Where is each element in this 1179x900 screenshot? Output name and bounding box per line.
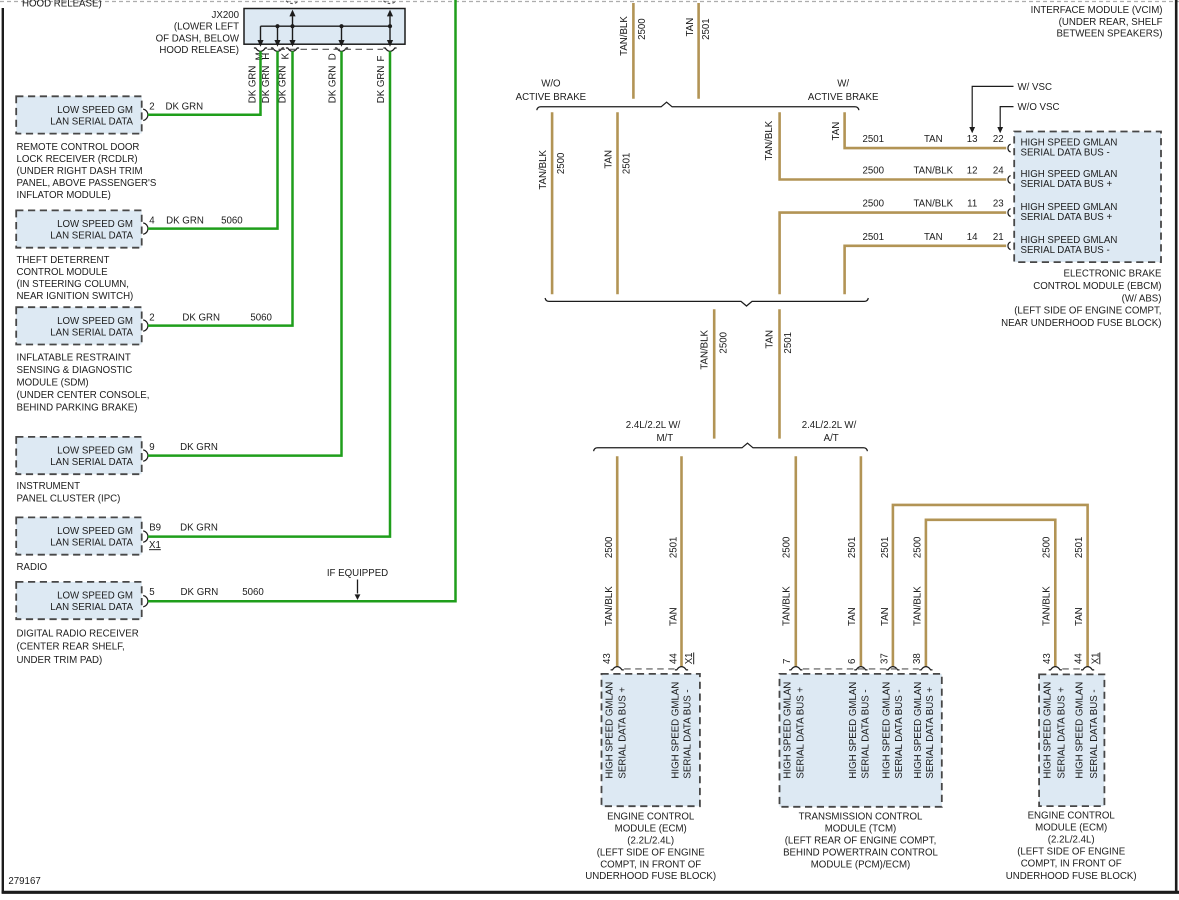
connector cup at bottom module pin 7 xyxy=(789,667,802,670)
svg-text:DK GRN: DK GRN xyxy=(376,66,387,104)
svg-text:HOOD RELEASE): HOOD RELEASE) xyxy=(22,0,102,10)
svg-text:22: 22 xyxy=(993,134,1004,145)
svg-text:HIGH SPEED GMLAN: HIGH SPEED GMLAN xyxy=(1043,682,1054,779)
svg-text:UNDER TRIM PAD): UNDER TRIM PAD) xyxy=(17,655,103,666)
svg-text:5: 5 xyxy=(149,587,154,598)
svg-text:LAN SERIAL DATA: LAN SERIAL DATA xyxy=(50,538,133,549)
svg-text:LOW SPEED GM: LOW SPEED GM xyxy=(57,316,133,327)
svg-text:9: 9 xyxy=(149,442,154,453)
svg-text:(UNDER RIGHT DASH TRIM: (UNDER RIGHT DASH TRIM xyxy=(17,166,143,177)
svg-text:TAN: TAN xyxy=(603,150,614,169)
module box: digital radio receiver (LOW SPEED GM LAN SERIAL DATA) xyxy=(16,582,142,619)
connector cup at RCDLR output xyxy=(143,109,148,120)
off-page connector arc above JX200 pin F xyxy=(384,1,397,4)
off-page connector arc above JX200 pin K xyxy=(286,1,299,4)
svg-text:2500: 2500 xyxy=(863,199,885,210)
svg-text:(LEFT SIDE OF ENGINE: (LEFT SIDE OF ENGINE xyxy=(1017,847,1126,858)
svg-text:W/ VSC: W/ VSC xyxy=(1018,82,1052,93)
connector dashed strip at ECM (2.2L/2.4L M/T) xyxy=(624,668,674,670)
svg-text:DK GRN: DK GRN xyxy=(180,442,218,453)
svg-text:BETWEEN SPEAKERS): BETWEEN SPEAKERS) xyxy=(1056,29,1162,40)
svg-text:MODULE (SDM): MODULE (SDM) xyxy=(17,378,89,389)
svg-text:COMPT, IN FRONT OF: COMPT, IN FRONT OF xyxy=(1021,859,1122,870)
svg-text:2501: 2501 xyxy=(701,18,712,40)
page right border xyxy=(1175,0,1178,893)
svg-text:DK GRN: DK GRN xyxy=(278,66,289,104)
module box: RCDLR (LOW SPEED GM LAN SERIAL DATA) xyxy=(16,96,142,133)
svg-text:14: 14 xyxy=(967,232,978,243)
JX200 arrowhead up at pin K xyxy=(289,10,295,17)
connector cup at bottom module pin 44 xyxy=(1081,667,1094,670)
svg-text:A/T: A/T xyxy=(824,433,839,444)
merge brace: branches rejoin below EBCM xyxy=(545,298,868,306)
connector cup at theft deterrent output xyxy=(143,223,148,234)
svg-text:D: D xyxy=(327,53,338,60)
JX200 arrowhead into pin D xyxy=(338,40,344,47)
leader line W/ VSC pointing at pin column 13 xyxy=(972,86,1013,127)
wire 2500 TAN/BLK crossover TCM pin 38 to ECM pin 43 xyxy=(926,520,1055,667)
svg-text:JX200: JX200 xyxy=(212,10,240,21)
svg-text:HOOD RELEASE): HOOD RELEASE) xyxy=(159,45,239,56)
svg-text:2500: 2500 xyxy=(781,536,792,558)
connector cup at IPC output xyxy=(143,450,148,461)
page top border (cropped, gray dashed) xyxy=(0,1,1179,3)
svg-text:M/T: M/T xyxy=(656,433,673,444)
svg-text:COMPT, IN FRONT OF: COMPT, IN FRONT OF xyxy=(600,859,701,870)
svg-text:HIGH SPEED GMLAN: HIGH SPEED GMLAN xyxy=(882,682,893,779)
svg-text:SERIAL DATA BUS +: SERIAL DATA BUS + xyxy=(1056,687,1067,779)
svg-text:2: 2 xyxy=(149,313,154,324)
svg-text:44: 44 xyxy=(1073,653,1084,664)
svg-text:W/O: W/O xyxy=(541,79,561,90)
svg-text:12: 12 xyxy=(967,166,978,177)
JX200 stub up from pin F (to off-page) xyxy=(389,16,391,26)
module box: transmission control module TCM xyxy=(780,674,942,807)
svg-text:2500: 2500 xyxy=(863,166,885,177)
JX200 junction dot at pin H xyxy=(275,24,279,28)
svg-text:TAN/BLK: TAN/BLK xyxy=(913,166,953,177)
svg-text:TAN/BLK: TAN/BLK xyxy=(913,586,924,626)
svg-text:TAN: TAN xyxy=(764,330,775,349)
svg-text:X1: X1 xyxy=(1090,652,1101,664)
svg-text:(2.2L/2.4L): (2.2L/2.4L) xyxy=(1048,835,1095,846)
svg-text:SERIAL DATA BUS -: SERIAL DATA BUS - xyxy=(1089,689,1100,778)
svg-text:RADIO: RADIO xyxy=(17,562,48,573)
svg-text:43: 43 xyxy=(1042,653,1053,664)
split brace: pair splits to ECM (M/T) and TCM (A/T) xyxy=(594,443,868,451)
JX200 stub down to pin K xyxy=(292,26,294,40)
svg-text:43: 43 xyxy=(602,653,613,664)
svg-text:TAN/BLK: TAN/BLK xyxy=(781,586,792,626)
svg-text:TAN/BLK: TAN/BLK xyxy=(604,586,615,626)
connector dashed strip at TCM xyxy=(803,668,919,670)
svg-text:TAN/BLK: TAN/BLK xyxy=(538,149,549,189)
svg-text:2500: 2500 xyxy=(637,18,648,40)
svg-text:PANEL, ABOVE PASSENGER'S: PANEL, ABOVE PASSENGER'S xyxy=(17,178,157,189)
arrow IF EQUIPPED pointing to digital radio wire xyxy=(357,580,359,594)
wire radio pin B9 to JX200 (DK GRN) xyxy=(148,51,390,536)
wire 2501 TAN (W/O ACTIVE BRAKE branch) xyxy=(616,112,619,294)
svg-text:TAN: TAN xyxy=(924,134,943,145)
svg-text:TAN: TAN xyxy=(685,18,696,37)
svg-text:2501: 2501 xyxy=(847,537,858,559)
svg-text:DK GRN: DK GRN xyxy=(247,66,258,104)
svg-text:LOW SPEED GM: LOW SPEED GM xyxy=(57,526,133,537)
module box: IPC (LOW SPEED GM LAN SERIAL DATA) xyxy=(16,437,142,474)
svg-text:CONTROL MODULE: CONTROL MODULE xyxy=(17,267,109,278)
svg-text:B9: B9 xyxy=(149,523,161,534)
svg-text:2501: 2501 xyxy=(863,232,885,243)
svg-text:TRANSMISSION CONTROL: TRANSMISSION CONTROL xyxy=(799,812,923,823)
svg-text:2501: 2501 xyxy=(669,537,680,559)
wire RCDLR pin 2 to JX200 (DK GRN) xyxy=(148,51,261,115)
svg-text:HIGH SPEED GMLAN: HIGH SPEED GMLAN xyxy=(1075,682,1086,779)
wire 2501 TAN crossover TCM pin 37 to ECM pin 44 xyxy=(893,505,1088,667)
connector dashed strip at ECM (2.2L/2.4L A/T) xyxy=(1062,668,1080,670)
connector cup at radio output xyxy=(143,531,148,542)
svg-text:TAN/BLK: TAN/BLK xyxy=(619,16,630,56)
svg-text:(UNDER REAR, SHELF: (UNDER REAR, SHELF xyxy=(1059,17,1163,28)
svg-text:11: 11 xyxy=(967,199,977,210)
connector cup at EBCM pin 24 xyxy=(1008,176,1011,184)
JX200 arrowhead into pin K xyxy=(289,40,295,47)
svg-text:279167: 279167 xyxy=(8,876,40,887)
svg-text:BEHIND POWERTRAIN CONTROL: BEHIND POWERTRAIN CONTROL xyxy=(783,847,938,858)
svg-text:MODULE (ECM): MODULE (ECM) xyxy=(1035,822,1107,833)
svg-text:ELECTRONIC BRAKE: ELECTRONIC BRAKE xyxy=(1064,269,1163,280)
page bottom border xyxy=(2,891,1179,894)
svg-text:2: 2 xyxy=(149,102,154,113)
svg-text:DK GRN: DK GRN xyxy=(165,102,203,113)
svg-text:DK GRN: DK GRN xyxy=(182,313,220,324)
svg-text:DK GRN: DK GRN xyxy=(180,523,218,534)
svg-text:37: 37 xyxy=(880,653,891,664)
wire 2501 TAN merged pair xyxy=(778,309,781,438)
module box: SDM (LOW SPEED GM LAN SERIAL DATA) xyxy=(16,307,142,344)
svg-text:HIGH SPEED GMLAN: HIGH SPEED GMLAN xyxy=(848,682,859,779)
svg-text:LAN SERIAL DATA: LAN SERIAL DATA xyxy=(50,327,133,338)
wire SDM pin 2 to JX200 (DK GRN) xyxy=(148,51,293,325)
svg-text:TAN: TAN xyxy=(847,607,858,626)
wire 2501 TAN from brace to EBCM pin 13 (HS GMLAN bus -) xyxy=(845,112,1007,148)
svg-text:24: 24 xyxy=(993,166,1004,177)
svg-text:REMOTE CONTROL DOOR: REMOTE CONTROL DOOR xyxy=(17,142,140,153)
JX200 stub down to pin D xyxy=(341,26,343,40)
svg-text:TAN: TAN xyxy=(831,122,842,141)
svg-text:2500: 2500 xyxy=(1042,536,1053,558)
svg-text:(LEFT SIDE OF ENGINE: (LEFT SIDE OF ENGINE xyxy=(597,847,706,858)
svg-text:2501: 2501 xyxy=(863,134,885,145)
JX200 arrowhead into pin F xyxy=(387,40,393,47)
wire 2501 TAN to TCM pin 6 xyxy=(860,456,863,666)
svg-text:HIGH SPEED GMLAN: HIGH SPEED GMLAN xyxy=(783,682,794,779)
svg-text:PANEL CLUSTER (IPC): PANEL CLUSTER (IPC) xyxy=(17,494,121,505)
svg-text:13: 13 xyxy=(967,134,978,145)
svg-text:DIGITAL RADIO RECEIVER: DIGITAL RADIO RECEIVER xyxy=(17,629,139,640)
connector cup at SDM output xyxy=(143,320,148,331)
svg-text:X1: X1 xyxy=(149,540,161,551)
svg-text:UNDERHOOD FUSE BLOCK): UNDERHOOD FUSE BLOCK) xyxy=(585,871,716,882)
svg-text:23: 23 xyxy=(993,199,1004,210)
svg-text:TAN: TAN xyxy=(1074,607,1085,626)
svg-text:INTERFACE MODULE (VCIM): INTERFACE MODULE (VCIM) xyxy=(1031,5,1163,16)
wire digital radio receiver pin 5 to JX200 (DK GRN) xyxy=(148,0,456,601)
svg-text:2501: 2501 xyxy=(783,332,794,354)
wire VCIM 2500 TAN/BLK down to brace xyxy=(632,3,635,99)
svg-text:THEFT DETERRENT: THEFT DETERRENT xyxy=(17,255,110,266)
svg-text:2.4L/2.2L W/: 2.4L/2.2L W/ xyxy=(626,420,681,431)
svg-text:NEAR UNDERHOOD FUSE BLOCK): NEAR UNDERHOOD FUSE BLOCK) xyxy=(1001,318,1161,329)
svg-text:ACTIVE BRAKE: ACTIVE BRAKE xyxy=(516,92,587,103)
svg-text:(2.2L/2.4L): (2.2L/2.4L) xyxy=(627,836,674,847)
svg-text:LAN SERIAL DATA: LAN SERIAL DATA xyxy=(50,116,133,127)
svg-text:(UNDER CENTER CONSOLE,: (UNDER CENTER CONSOLE, xyxy=(17,390,150,401)
wire 2500 TAN/BLK to ECM pin 43 xyxy=(616,456,619,666)
svg-text:DK GRN: DK GRN xyxy=(327,66,338,104)
svg-text:DK GRN: DK GRN xyxy=(166,216,204,227)
connector cup at bottom module pin 38 xyxy=(919,667,932,670)
connector cup at bottom module pin 6 xyxy=(854,667,867,670)
svg-text:2501: 2501 xyxy=(1074,537,1085,559)
wire IPC pin 9 to JX200 (DK GRN) xyxy=(148,51,342,455)
connector cup at bottom module pin 44 xyxy=(675,667,688,670)
leader line W/O VSC pointing at pin column 22 xyxy=(1000,107,1013,128)
svg-text:(CENTER REAR SHELF,: (CENTER REAR SHELF, xyxy=(17,642,125,653)
JX200 junction dot at pin K xyxy=(290,24,294,28)
svg-text:SERIAL DATA BUS -: SERIAL DATA BUS - xyxy=(683,689,694,778)
svg-text:SERIAL DATA BUS +: SERIAL DATA BUS + xyxy=(925,687,936,779)
page left border xyxy=(2,8,4,893)
JX200 arrowhead into pin M xyxy=(257,40,263,47)
svg-text:LOW SPEED GM: LOW SPEED GM xyxy=(57,105,133,116)
svg-text:LAN SERIAL DATA: LAN SERIAL DATA xyxy=(50,457,133,468)
svg-text:5060: 5060 xyxy=(221,216,243,227)
JX200 junction dot at pin D xyxy=(339,24,343,28)
svg-text:HIGH SPEED GMLAN: HIGH SPEED GMLAN xyxy=(913,682,924,779)
JX200 internal bus wire xyxy=(261,25,391,27)
svg-text:LOW SPEED GM: LOW SPEED GM xyxy=(57,446,133,457)
svg-text:(IN STEERING COLUMN,: (IN STEERING COLUMN, xyxy=(17,279,130,290)
svg-text:MODULE (PCM)/ECM): MODULE (PCM)/ECM) xyxy=(811,859,911,870)
svg-text:DK GRN: DK GRN xyxy=(261,66,272,104)
connector cup at bottom module pin 43 xyxy=(611,667,624,670)
connector cup at bottom module pin 37 xyxy=(886,667,899,670)
svg-text:DK GRN: DK GRN xyxy=(181,587,219,598)
svg-text:LAN SERIAL DATA: LAN SERIAL DATA xyxy=(50,602,133,613)
svg-text:SERIAL DATA BUS -: SERIAL DATA BUS - xyxy=(1021,147,1110,158)
wire 2500 TAN/BLK (W/O ACTIVE BRAKE branch) xyxy=(551,112,554,294)
svg-text:SERIAL DATA BUS -: SERIAL DATA BUS - xyxy=(894,689,905,778)
svg-text:2.4L/2.2L W/: 2.4L/2.2L W/ xyxy=(802,420,857,431)
svg-text:(W/ ABS): (W/ ABS) xyxy=(1122,293,1162,304)
svg-text:LOW SPEED GM: LOW SPEED GM xyxy=(57,591,133,602)
svg-text:ACTIVE BRAKE: ACTIVE BRAKE xyxy=(808,92,879,103)
svg-text:MODULE (ECM): MODULE (ECM) xyxy=(615,824,687,835)
svg-text:OF DASH, BELOW: OF DASH, BELOW xyxy=(156,33,240,44)
svg-text:38: 38 xyxy=(912,653,923,664)
svg-text:(LEFT REAR OF ENGINE COMPT,: (LEFT REAR OF ENGINE COMPT, xyxy=(785,836,937,847)
svg-text:44: 44 xyxy=(669,653,680,664)
svg-text:K: K xyxy=(280,53,291,60)
svg-text:21: 21 xyxy=(993,232,1004,243)
svg-text:SERIAL DATA BUS +: SERIAL DATA BUS + xyxy=(796,687,807,779)
branch brace: VCIM pair splits to W/O and W/ ACTIVE BRAKE xyxy=(537,102,859,110)
svg-text:2500: 2500 xyxy=(913,536,924,558)
connector cup at EBCM pin 21 xyxy=(1008,242,1011,250)
module box: engine control module ECM (M/T) xyxy=(602,674,700,806)
svg-text:SERIAL DATA BUS +: SERIAL DATA BUS + xyxy=(1021,179,1113,190)
svg-text:INFLATOR MODULE): INFLATOR MODULE) xyxy=(17,190,111,201)
svg-text:2500: 2500 xyxy=(718,331,729,353)
svg-text:MODULE (TCM): MODULE (TCM) xyxy=(825,824,897,835)
svg-text:W/: W/ xyxy=(837,79,849,90)
svg-text:BEHIND PARKING BRAKE): BEHIND PARKING BRAKE) xyxy=(17,403,138,414)
svg-text:2500: 2500 xyxy=(604,536,615,558)
svg-text:TAN: TAN xyxy=(669,607,680,626)
connector cup at digital radio receiver output xyxy=(143,596,148,607)
wire 2500 TAN/BLK merged pair xyxy=(713,309,716,438)
wire VCIM 2501 TAN down to brace xyxy=(697,3,700,99)
module box: engine control module ECM (A/T) xyxy=(1039,674,1104,806)
wire 2500 TAN/BLK to TCM pin 7 xyxy=(794,456,797,666)
JX200 stub down to pin F xyxy=(389,26,391,40)
svg-text:F: F xyxy=(376,56,387,62)
JX200 stub down to pin H xyxy=(277,26,279,40)
connector cup row under JX200 xyxy=(254,48,267,51)
svg-text:H: H xyxy=(261,53,272,60)
svg-text:ENGINE CONTROL: ENGINE CONTROL xyxy=(607,812,695,823)
svg-text:(LOWER LEFT: (LOWER LEFT xyxy=(174,22,239,33)
wire 2500 TAN/BLK from EBCM pin 11 down to merge brace xyxy=(780,213,1007,295)
svg-text:SERIAL DATA BUS +: SERIAL DATA BUS + xyxy=(617,687,628,779)
svg-text:4: 4 xyxy=(149,216,155,227)
wire 2501 TAN from EBCM pin 14 down to merge brace xyxy=(845,246,1007,294)
svg-text:INFLATABLE RESTRAINT: INFLATABLE RESTRAINT xyxy=(17,352,131,363)
svg-text:2500: 2500 xyxy=(556,152,567,174)
module box: theft deterrent (LOW SPEED GM LAN SERIAL DATA) xyxy=(16,210,142,247)
module box: radio (LOW SPEED GM LAN SERIAL DATA) xyxy=(16,517,142,554)
svg-text:TAN/BLK: TAN/BLK xyxy=(913,199,953,210)
svg-text:5060: 5060 xyxy=(242,587,264,598)
JX200 junction dot at pin F xyxy=(388,24,392,28)
svg-text:W/O VSC: W/O VSC xyxy=(1018,102,1060,113)
connector cup at bottom module pin 43 xyxy=(1049,667,1062,670)
svg-text:TAN/BLK: TAN/BLK xyxy=(764,120,775,160)
svg-text:NEAR IGNITION SWITCH): NEAR IGNITION SWITCH) xyxy=(17,291,134,302)
connector cup at EBCM pin 22 xyxy=(1008,144,1011,152)
svg-text:INSTRUMENT: INSTRUMENT xyxy=(17,481,81,492)
svg-text:7: 7 xyxy=(782,659,793,664)
wire theft deterrent pin 4 to JX200 (DK GRN) xyxy=(148,51,278,228)
svg-text:SERIAL DATA BUS +: SERIAL DATA BUS + xyxy=(1021,212,1113,223)
svg-text:SERIAL DATA BUS -: SERIAL DATA BUS - xyxy=(1021,245,1110,256)
JX200 arrowhead up at pin F xyxy=(387,10,393,17)
svg-text:2501: 2501 xyxy=(880,537,891,559)
svg-text:TAN/BLK: TAN/BLK xyxy=(699,329,710,369)
svg-text:ENGINE CONTROL: ENGINE CONTROL xyxy=(1028,810,1116,821)
svg-text:6: 6 xyxy=(847,659,858,664)
svg-text:LOCK RECEIVER (RCDLR): LOCK RECEIVER (RCDLR) xyxy=(17,154,138,165)
svg-text:LOW SPEED GM: LOW SPEED GM xyxy=(57,219,133,230)
connector cup at EBCM pin 23 xyxy=(1008,209,1011,217)
splice block JX200 body xyxy=(244,9,405,45)
module box: electronic brake control module EBCM xyxy=(1014,132,1161,263)
svg-text:LAN SERIAL DATA: LAN SERIAL DATA xyxy=(50,231,133,242)
svg-text:X1: X1 xyxy=(684,652,695,664)
JX200 stub up from pin K (to off-page) xyxy=(292,16,294,26)
JX200 arrowhead into pin H xyxy=(274,40,280,47)
svg-text:UNDERHOOD FUSE BLOCK): UNDERHOOD FUSE BLOCK) xyxy=(1006,871,1137,882)
svg-text:5060: 5060 xyxy=(250,313,272,324)
svg-text:(LEFT SIDE OF ENGINE COMPT,: (LEFT SIDE OF ENGINE COMPT, xyxy=(1014,306,1161,317)
JX200 bus left corner down to pin M xyxy=(260,26,262,40)
svg-text:TAN: TAN xyxy=(880,607,891,626)
svg-text:SERIAL DATA BUS -: SERIAL DATA BUS - xyxy=(861,689,872,778)
svg-text:TAN/BLK: TAN/BLK xyxy=(1042,586,1053,626)
wire 2501 TAN to ECM pin 44 xyxy=(680,456,683,666)
svg-text:HIGH SPEED GMLAN: HIGH SPEED GMLAN xyxy=(671,682,682,779)
svg-text:IF EQUIPPED: IF EQUIPPED xyxy=(327,568,388,579)
svg-text:SENSING & DIAGNOSTIC: SENSING & DIAGNOSTIC xyxy=(17,365,133,376)
connector dashed strip under JX200 xyxy=(268,48,384,50)
svg-text:TAN: TAN xyxy=(924,232,943,243)
svg-text:2501: 2501 xyxy=(621,153,632,175)
svg-text:HIGH SPEED GMLAN: HIGH SPEED GMLAN xyxy=(604,682,615,779)
svg-text:CONTROL MODULE (EBCM): CONTROL MODULE (EBCM) xyxy=(1033,281,1161,292)
wire 2500 TAN/BLK from brace to EBCM pin 12 (HS GMLAN bus +) xyxy=(780,112,1007,179)
